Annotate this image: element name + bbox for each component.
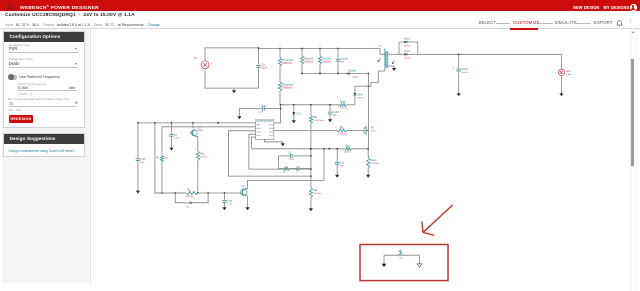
svg-text:Rt: Rt [283,171,286,174]
svg-text:20kOhm: 20kOhm [322,62,331,64]
svg-text:249kOhm: 249kOhm [282,88,292,90]
svg-text:Dout2: Dout2 [404,50,411,53]
svg-text:Cf: Cf [296,172,299,174]
svg-text:Rsnub1: Rsnub1 [304,57,313,61]
svg-text:Cvdd: Cvdd [333,110,340,114]
svg-text:24.9kOhm: 24.9kOhm [313,120,323,122]
svg-text:Rsnb: Rsnb [340,100,346,103]
svg-text:1uF: 1uF [140,162,144,164]
svg-text:2.8kOhm: 2.8kOhm [185,196,194,198]
svg-text:Ccs: Ccs [340,161,345,165]
svg-text:Cout1: Cout1 [461,67,468,71]
svg-text:Cp: Cp [174,132,178,136]
svg-text:0.1uF: 0.1uF [227,204,233,206]
svg-text:Csnub: Csnub [340,57,348,61]
svg-text:CSD: CSD [371,131,376,133]
svg-text:150uF: 150uF [461,72,468,74]
svg-text:Rbl: Rbl [313,188,317,192]
svg-text:M1: M1 [371,126,375,130]
svg-text:Ct: Ct [289,151,292,154]
svg-text:Q1: Q1 [198,126,202,130]
svg-text:1nF: 1nF [340,62,345,64]
svg-text:+: + [452,66,454,69]
svg-text:4.99Ohm: 4.99Ohm [338,133,347,135]
svg-text:Lsec: Lsec [399,258,405,260]
svg-text:10uF: 10uF [262,67,268,70]
svg-text:D1: D1 [187,207,191,209]
svg-text:1.1A: 1.1A [566,73,571,76]
svg-text:10kOhm: 10kOhm [313,193,321,195]
svg-text:Copt: Copt [227,199,233,203]
svg-text:US1M: US1M [352,77,358,79]
svg-text:10k: 10k [164,158,168,160]
svg-text:Cvcc: Cvcc [261,104,267,107]
svg-text:T1: T1 [378,45,381,48]
svg-text:Rcs: Rcs [345,144,350,147]
svg-text:1kOhm: 1kOhm [200,157,207,159]
svg-text:VCC: VCC [296,113,301,116]
svg-text:Dclamp: Dclamp [348,70,357,73]
svg-text:Rstartup2: Rstartup2 [282,83,294,87]
svg-text:1nF: 1nF [340,166,344,168]
svg-text:10Ohm: 10Ohm [340,107,347,109]
svg-text:Rg: Rg [340,126,344,129]
svg-text:1kOhm: 1kOhm [344,152,351,154]
svg-text:Rstartup1: Rstartup1 [282,58,294,62]
svg-text:U2: U2 [242,185,246,188]
svg-text:0.62Ohm: 0.62Ohm [371,163,380,165]
svg-text:Dout1: Dout1 [404,38,411,41]
svg-text:249kOhm: 249kOhm [282,63,292,65]
svg-text:V8P10: V8P10 [404,46,411,48]
svg-text:Rsnub2: Rsnub2 [322,57,331,61]
svg-text:1uF: 1uF [333,115,338,117]
svg-text:20kOhm: 20kOhm [304,62,313,64]
svg-text:US1M: US1M [357,98,363,100]
svg-text:Rbe: Rbe [200,152,205,156]
svg-text:V1: V1 [194,56,198,60]
svg-text:0.1uF: 0.1uF [258,112,264,114]
svg-text:UCC28C55QDRQ1: UCC28C55QDRQ1 [256,121,274,123]
svg-text:Iout: Iout [566,70,570,73]
svg-text:Cref: Cref [140,157,145,161]
svg-text:Rr: Rr [156,157,159,160]
svg-text:Dsnb: Dsnb [357,94,363,97]
svg-text:V8P10: V8P10 [404,58,411,60]
svg-text:Rfs: Rfs [313,115,318,119]
svg-text:-: - [211,66,212,70]
svg-text:+: + [211,61,213,65]
svg-text:2.2nF: 2.2nF [289,159,295,161]
svg-text:0.1uF: 0.1uF [174,137,180,139]
svg-text:Rsns: Rsns [371,158,378,162]
svg-text:MMBT: MMBT [198,130,205,132]
